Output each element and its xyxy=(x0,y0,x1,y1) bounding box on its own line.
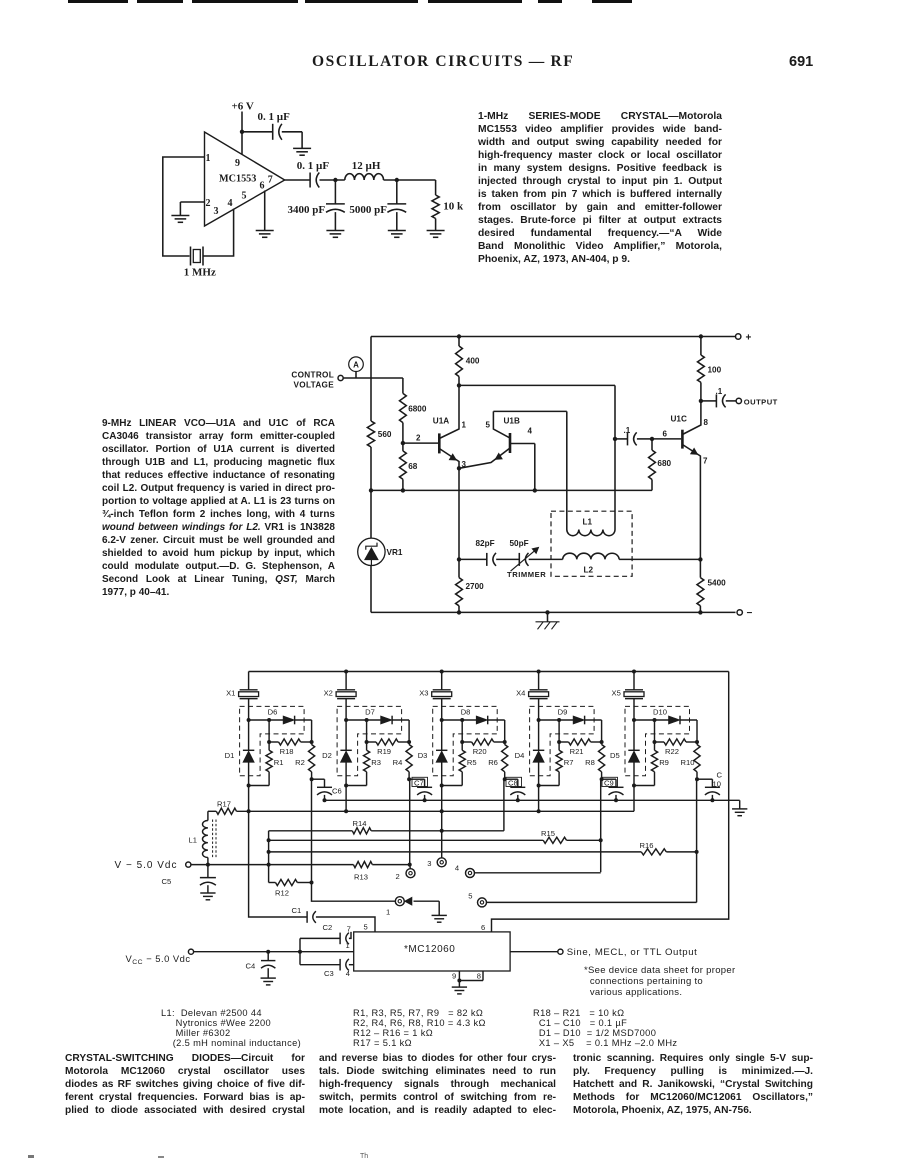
label C6 xyxy=(332,787,342,796)
terminal 2 xyxy=(396,869,416,881)
wire output pin 7 xyxy=(285,179,310,181)
node rail-X2 xyxy=(344,670,348,674)
node R6 bottom xyxy=(503,777,507,781)
svg-text:R3: R3 xyxy=(371,758,381,767)
node rail-X3 xyxy=(440,670,444,674)
svg-text:3: 3 xyxy=(427,859,431,868)
svg-text:D4: D4 xyxy=(515,751,525,760)
svg-text:50pF: 50pF xyxy=(510,539,529,548)
crystal X4 xyxy=(516,672,549,721)
wire pin 2 to ground xyxy=(180,202,204,216)
svg-text:R10: R10 xyxy=(681,758,695,767)
node R13 right xyxy=(408,863,412,867)
resistor R14 line xyxy=(269,819,504,834)
node R19-R4 xyxy=(407,740,411,744)
terminal IC output xyxy=(558,947,698,958)
svg-text:7: 7 xyxy=(268,174,273,185)
svg-text:C3: C3 xyxy=(324,969,334,978)
positive supply rail xyxy=(371,336,736,338)
node bias-U1B xyxy=(533,488,537,492)
capacitor 5000 pF xyxy=(349,180,406,231)
wire L2 to emitter U1C xyxy=(619,558,700,560)
dashed switch box X1 xyxy=(240,706,305,775)
wire VR1 to negative rail xyxy=(370,566,372,613)
capacitor C10 xyxy=(697,779,720,800)
svg-text:1: 1 xyxy=(206,153,211,164)
node C9 ground line xyxy=(614,798,618,802)
wire R3 bottom xyxy=(346,785,367,787)
pin 5 xyxy=(242,190,247,201)
svg-text:.1: .1 xyxy=(624,426,631,435)
svg-text:R17: R17 xyxy=(217,799,231,808)
svg-text:8: 8 xyxy=(477,972,481,981)
resistor R15 line xyxy=(269,829,601,843)
label C10 xyxy=(713,771,723,789)
svg-text:1: 1 xyxy=(462,421,467,430)
node C7 ground line xyxy=(423,798,427,802)
node R4 bottom xyxy=(407,777,411,781)
node R21 left xyxy=(557,740,561,744)
svg-text:5: 5 xyxy=(468,891,472,900)
diode D2 xyxy=(322,720,352,786)
svg-text:4: 4 xyxy=(455,864,459,873)
svg-text:4: 4 xyxy=(528,427,533,436)
node X1 bottom xyxy=(247,784,251,788)
svg-text:82pF: 82pF xyxy=(476,539,495,548)
svg-text:5400: 5400 xyxy=(708,579,727,588)
node C6 ground line xyxy=(323,798,327,802)
svg-text:5000 pF: 5000 pF xyxy=(349,204,387,216)
wire pin1 feedback loop xyxy=(163,157,205,256)
wire trimmer to L2 xyxy=(529,558,563,560)
node R17 line X3 xyxy=(440,809,444,813)
node output xyxy=(699,399,703,403)
crystal X5 xyxy=(612,672,645,721)
wire to bypass cap xyxy=(242,131,273,133)
inductor L1 xyxy=(567,518,615,536)
node X3 bottom xyxy=(440,784,444,788)
svg-text:R18: R18 xyxy=(280,747,294,756)
transistor U1B xyxy=(459,411,533,468)
pin 4 xyxy=(228,198,233,209)
pin 1 xyxy=(206,153,211,164)
wire D9 cathode down xyxy=(601,720,603,742)
node C10 ground line xyxy=(710,798,714,802)
svg-text:R8: R8 xyxy=(585,758,595,767)
node base U1A xyxy=(401,441,405,445)
wire base U1B to bias rail xyxy=(510,444,535,491)
inductor L1 (2.5 mH) xyxy=(189,811,217,864)
ground pin 6 xyxy=(256,231,274,238)
zener diode VR1 1N3828 xyxy=(358,538,403,565)
node bias-left xyxy=(369,488,373,492)
svg-text:R16: R16 xyxy=(640,841,654,850)
node R18 branch xyxy=(267,718,271,722)
svg-text:R14: R14 xyxy=(353,819,367,828)
wire control voltage xyxy=(343,377,403,379)
ground pin 2 xyxy=(171,216,189,223)
diode D4 xyxy=(515,720,545,786)
ground 5000pF xyxy=(388,231,406,238)
label pin 6 xyxy=(481,923,485,932)
ground 10k xyxy=(427,231,445,238)
node X5 bottom xyxy=(632,784,636,788)
svg-text:A: A xyxy=(353,361,359,370)
svg-text:D9: D9 xyxy=(558,707,568,716)
svg-text:C5: C5 xyxy=(162,877,172,886)
crystal X2 xyxy=(324,672,357,721)
ground 3400pF xyxy=(326,231,344,238)
node rail-X4 xyxy=(537,670,541,674)
svg-text:R15: R15 xyxy=(541,829,555,838)
svg-text:7: 7 xyxy=(347,924,351,933)
node X3 lead xyxy=(440,718,444,722)
node R19 left xyxy=(365,740,369,744)
terminal 1 xyxy=(386,897,404,917)
resistor R1 xyxy=(266,742,284,786)
dashed switch box X4 xyxy=(530,706,595,775)
node bus-R15 xyxy=(267,838,271,842)
wire +6V to pin 9 xyxy=(241,112,243,167)
svg-text:5: 5 xyxy=(486,421,491,430)
node coupling xyxy=(613,437,617,441)
svg-text:V − 5.0 Vdc: V − 5.0 Vdc xyxy=(115,860,178,871)
svg-text:L1: L1 xyxy=(189,836,197,845)
svg-text:C6: C6 xyxy=(332,787,342,796)
capacitor C1 xyxy=(292,906,316,923)
terminal control voltage xyxy=(338,375,343,380)
node C8 ground line xyxy=(516,798,520,802)
node R22 left xyxy=(653,740,657,744)
node R18-R2 xyxy=(310,740,314,744)
wire X3 dropper xyxy=(441,786,443,859)
capacitor .1 output xyxy=(701,387,736,408)
diode D5 xyxy=(610,720,640,786)
resistor R22 xyxy=(655,720,698,756)
resistor R19 xyxy=(367,720,410,756)
IC U1 MC12060 xyxy=(354,932,510,971)
svg-text:7: 7 xyxy=(703,457,708,466)
svg-text:0. 1 µF: 0. 1 µF xyxy=(297,160,330,172)
wire collector U1A to L1 xyxy=(459,385,615,439)
capacitor ground line xyxy=(325,800,740,809)
svg-text:CONTROL: CONTROL xyxy=(291,371,334,380)
svg-text:L1: L1 xyxy=(583,518,593,527)
resistor 10 k xyxy=(432,195,464,231)
terminal - supply xyxy=(737,608,753,619)
ground terminal 1 xyxy=(432,915,447,922)
svg-text:D6: D6 xyxy=(268,707,278,716)
node R8 bottom xyxy=(600,777,604,781)
wire X5 dropper xyxy=(633,786,635,812)
resistor R20 xyxy=(462,720,505,756)
svg-text:2: 2 xyxy=(206,198,211,209)
svg-text:12 µH: 12 µH xyxy=(352,160,381,172)
svg-text:R22: R22 xyxy=(665,747,679,756)
capacitor .1 coupling to U1C xyxy=(615,426,652,445)
svg-text:D1: D1 xyxy=(225,751,235,760)
svg-text:−: − xyxy=(747,608,753,619)
node R21-R8 xyxy=(600,740,604,744)
svg-text:6: 6 xyxy=(481,923,485,932)
node R15-R8 xyxy=(599,838,603,842)
wire right loop to pin 6 xyxy=(492,672,729,932)
node A circle control input xyxy=(349,357,364,378)
pin 2 xyxy=(206,198,211,209)
terminal 3 xyxy=(427,858,446,868)
svg-text:10 k: 10 k xyxy=(443,201,464,213)
svg-text:2700: 2700 xyxy=(466,582,485,591)
+6 V supply label xyxy=(232,101,254,113)
node X2 lead xyxy=(344,718,348,722)
svg-text:5: 5 xyxy=(364,922,368,931)
resistor R21 xyxy=(559,720,602,756)
svg-text:C4: C4 xyxy=(246,962,256,971)
node R19 branch xyxy=(365,718,369,722)
svg-text:Sine, MECL, or TTL Output: Sine, MECL, or TTL Output xyxy=(567,947,698,958)
svg-text:8: 8 xyxy=(704,418,709,427)
svg-text:5: 5 xyxy=(242,190,247,201)
wire base U1C xyxy=(652,430,681,439)
wire IC output xyxy=(510,951,558,953)
resistor 6800 xyxy=(400,378,427,443)
resistor 2700 xyxy=(456,559,485,612)
node R16-R10 xyxy=(695,850,699,854)
resistor 400 xyxy=(456,337,480,386)
node X5 lead xyxy=(632,718,636,722)
terminal V-5.0Vdc xyxy=(115,860,191,871)
capacitor 3400 pF xyxy=(288,180,345,231)
node 2700-neg xyxy=(457,610,461,614)
terminal OUTPUT xyxy=(736,397,778,406)
node emitters xyxy=(457,466,461,470)
svg-text:U1A: U1A xyxy=(433,417,449,426)
wire R6 dropper xyxy=(503,779,505,831)
crystal X1 xyxy=(226,672,259,721)
svg-text:R2: R2 xyxy=(295,758,305,767)
svg-text:VR1: VR1 xyxy=(387,548,403,557)
wire R4 dropper xyxy=(409,779,412,868)
transistor U1A xyxy=(433,385,467,469)
node R17 line X4 xyxy=(537,809,541,813)
svg-text:D3: D3 xyxy=(418,751,428,760)
resistor R5 xyxy=(459,742,477,786)
ground C4 xyxy=(261,978,276,985)
svg-text:R20: R20 xyxy=(473,747,487,756)
node collector U1A xyxy=(457,383,461,387)
top supply rail xyxy=(249,671,729,673)
svg-text:400: 400 xyxy=(466,357,480,366)
svg-text:3400 pF: 3400 pF xyxy=(288,204,326,216)
resistor R3 xyxy=(364,742,382,786)
arrow into terminal 1 xyxy=(404,897,439,915)
diode D7 xyxy=(346,707,409,724)
left bus vertical xyxy=(268,831,270,883)
svg-text:X2: X2 xyxy=(324,688,333,697)
capacitor C5 xyxy=(162,865,216,893)
node rail-100 xyxy=(699,334,703,338)
svg-text:D2: D2 xyxy=(322,751,332,760)
pin 6 xyxy=(260,180,265,191)
wire R5 bottom xyxy=(442,785,463,787)
svg-text:C1: C1 xyxy=(292,906,302,915)
wire R2 dropper xyxy=(312,779,396,901)
capacitor C2 xyxy=(300,923,351,944)
svg-text:6: 6 xyxy=(260,180,265,191)
wire inductor to load xyxy=(384,180,436,195)
node R2 bottom xyxy=(310,777,314,781)
wire crystal to pin 4 xyxy=(203,209,234,256)
svg-text:TRIMMER: TRIMMER xyxy=(507,570,546,579)
wire R9 bottom xyxy=(634,785,655,787)
resistor R18 xyxy=(269,720,312,756)
terminal 4 xyxy=(455,864,475,878)
svg-text:VCC − 5.0 Vdc: VCC − 5.0 Vdc xyxy=(126,953,191,966)
wire X1 dropper to C1 xyxy=(249,786,308,918)
resistor R2 xyxy=(295,742,315,779)
pin 3 xyxy=(214,206,219,217)
node filter input xyxy=(333,178,337,182)
node rail-400 xyxy=(457,334,461,338)
svg-text:D10: D10 xyxy=(653,707,667,716)
terminal Vcc xyxy=(188,949,193,954)
svg-text:560: 560 xyxy=(378,430,392,439)
node X2 bottom xyxy=(344,784,348,788)
node R18 left xyxy=(267,740,271,744)
resistor 680 xyxy=(649,439,672,491)
diode D10 xyxy=(634,707,697,724)
svg-text:R12: R12 xyxy=(275,889,289,898)
diode D8 xyxy=(442,707,505,724)
svg-text:VOLTAGE: VOLTAGE xyxy=(294,381,335,390)
inductor L1 dashed shield box xyxy=(551,511,632,576)
svg-text:4: 4 xyxy=(346,969,350,978)
wire D8 cathode down xyxy=(504,720,506,742)
capacitor C9 xyxy=(602,779,624,800)
capacitor 82pF xyxy=(459,539,496,566)
capacitor 0.1 uF bypass xyxy=(258,111,291,140)
node X1 lead xyxy=(247,718,251,722)
resistor R9 xyxy=(651,742,669,786)
node R20 left xyxy=(460,740,464,744)
terminal 5 xyxy=(468,891,486,907)
diode D9 xyxy=(539,707,602,724)
resistor R4 xyxy=(393,742,413,779)
node R20 branch xyxy=(460,718,464,722)
node filter output xyxy=(395,178,399,182)
svg-text:9: 9 xyxy=(452,972,456,981)
left vertical rail xyxy=(370,337,372,539)
svg-text:*MC12060: *MC12060 xyxy=(404,944,455,955)
svg-text:X5: X5 xyxy=(612,688,621,697)
capacitor 0.1 uF coupling xyxy=(297,160,330,188)
svg-text:OUTPUT: OUTPUT xyxy=(744,397,778,406)
node R17 line X1 xyxy=(247,809,251,813)
svg-text:D7: D7 xyxy=(365,707,375,716)
svg-text:2: 2 xyxy=(396,872,400,881)
op-amp U1 MC1553 xyxy=(205,132,285,226)
svg-text:D8: D8 xyxy=(461,707,471,716)
wire R1 bottom xyxy=(249,785,270,787)
resistor R12 line xyxy=(269,879,312,897)
diode D1 xyxy=(225,720,255,786)
pin 9 xyxy=(235,158,240,169)
svg-text:+6 V: +6 V xyxy=(232,101,254,113)
wire C1 to pin 5 xyxy=(316,917,375,932)
wire bypass cap to ground xyxy=(282,132,302,149)
wire collector U1B to L1 xyxy=(493,411,566,529)
svg-text:9: 9 xyxy=(235,158,240,169)
wire D10 cathode down xyxy=(696,720,698,742)
svg-text:X4: X4 xyxy=(516,688,525,697)
resistor R16 line xyxy=(269,841,697,855)
resistor R7 xyxy=(556,742,574,786)
ground chassis xyxy=(536,610,560,629)
negative supply rail xyxy=(371,611,736,613)
svg-text:D5: D5 xyxy=(610,751,620,760)
ground pins 9-8 xyxy=(452,987,467,994)
label Vcc xyxy=(126,953,191,966)
inductor 12 uH xyxy=(345,160,384,180)
node bus-V xyxy=(267,863,271,867)
node C4 xyxy=(266,950,270,954)
crystal Y1 1 MHz xyxy=(184,247,216,279)
svg-text:+: + xyxy=(746,333,752,344)
wire base 2 U1A xyxy=(403,434,438,444)
wire X4 dropper xyxy=(538,786,540,812)
node L1 bottom xyxy=(206,863,210,867)
svg-text:R4: R4 xyxy=(393,758,403,767)
control voltage label xyxy=(291,371,334,390)
resistor 100 xyxy=(698,337,722,401)
node rail-X5 xyxy=(632,670,636,674)
wire L1 right lead xyxy=(614,439,616,530)
node 5400-neg xyxy=(698,610,702,614)
svg-text:3: 3 xyxy=(214,206,219,217)
ground C5 xyxy=(200,893,215,900)
capacitor C4 xyxy=(246,952,276,978)
node R10 bottom xyxy=(695,777,699,781)
wire R10 dropper xyxy=(486,779,696,902)
diode D3 xyxy=(418,720,448,786)
svg-text:2: 2 xyxy=(416,434,421,443)
dashed switch box X5 xyxy=(625,706,690,775)
pins 9 and 8 to ground xyxy=(452,971,483,987)
svg-text:R6: R6 xyxy=(488,758,498,767)
label C8 xyxy=(506,777,522,787)
wire D6 cathode down xyxy=(311,720,313,742)
wire cap to filter node xyxy=(320,179,345,181)
node base U1C xyxy=(650,437,654,441)
capacitor C8 xyxy=(505,779,526,800)
svg-text:R9: R9 xyxy=(659,758,669,767)
dashed switch box X2 xyxy=(337,706,402,775)
svg-text:R5: R5 xyxy=(467,758,477,767)
wire D7 cathode down xyxy=(408,720,410,742)
crystal X3 xyxy=(419,672,452,721)
transistor U1C xyxy=(671,401,709,560)
node R12-R2 xyxy=(310,881,314,885)
svg-text:R13: R13 xyxy=(354,873,368,882)
svg-text:X1: X1 xyxy=(226,688,235,697)
svg-text:R21: R21 xyxy=(570,747,584,756)
svg-text:1: 1 xyxy=(386,907,390,916)
label C7 xyxy=(412,777,428,787)
resistor 560 xyxy=(367,421,392,447)
node X4 lead xyxy=(537,718,541,722)
resistor R10 xyxy=(681,742,701,779)
node R20-R6 xyxy=(503,740,507,744)
